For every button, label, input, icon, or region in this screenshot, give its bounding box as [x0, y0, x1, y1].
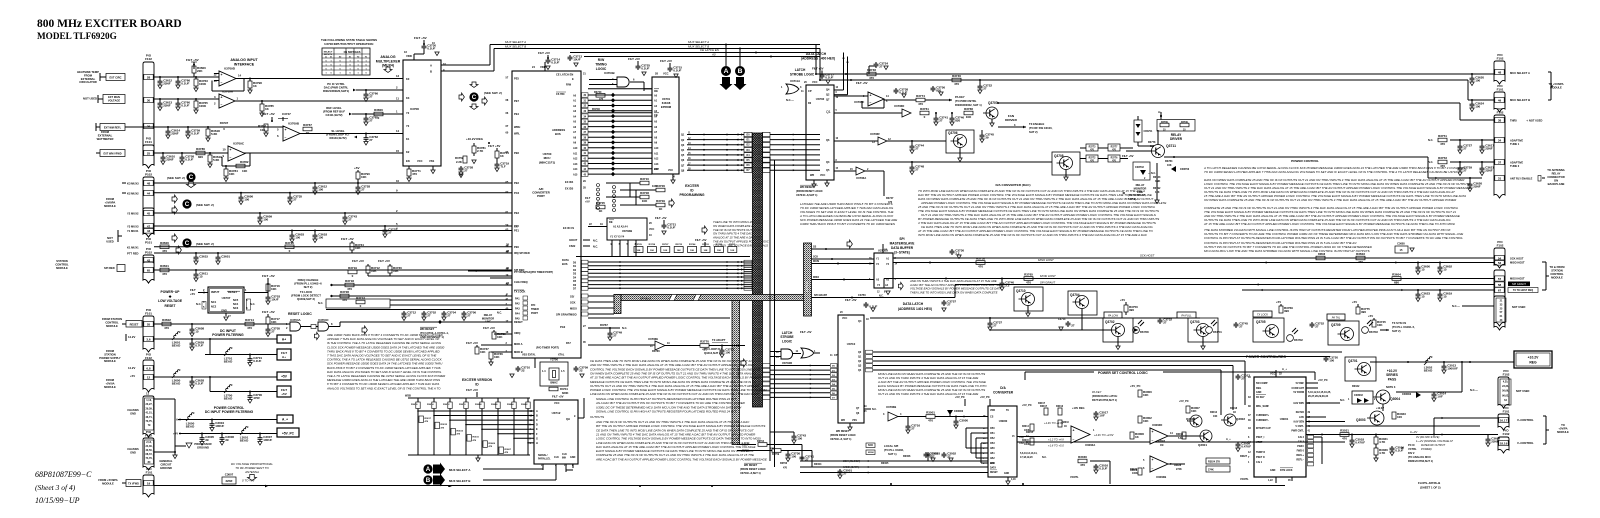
svg-text:470: 470	[164, 326, 169, 330]
svg-text:C: C	[189, 174, 194, 181]
svg-text:AB2: AB2	[990, 457, 995, 460]
SPI bus chevrons	[669, 295, 677, 301]
svg-text:F101: F101	[1503, 410, 1510, 414]
svg-text:DYN LOCK: DYN LOCK	[1280, 469, 1293, 472]
resistor R3709 1K	[656, 203, 665, 207]
svg-text:22NF: 22NF	[225, 479, 232, 483]
svg-text:VDD: VDD	[406, 54, 412, 58]
svg-text:0.1UF: 0.1UF	[185, 158, 193, 162]
svg-text:FILT +5V: FILT +5V	[262, 274, 276, 278]
svg-text:(TO PWR CNTRL: (TO PWR CNTRL	[955, 99, 977, 103]
transistor Q3706	[946, 130, 974, 153]
svg-text:470: 470	[783, 467, 788, 470]
svg-text:+5V_PC: +5V_PC	[1130, 384, 1141, 388]
capacitor C3756 820	[932, 86, 934, 88]
svg-text:R3765: R3765	[1024, 273, 1033, 277]
svg-text:+10V REG: +10V REG	[1072, 406, 1084, 410]
svg-text:100: 100	[725, 351, 730, 355]
svg-text:+5V/9PA: +5V/9PA	[105, 200, 116, 204]
relay wires to connector	[1164, 156, 1428, 158]
svg-text:15: 15	[1443, 268, 1447, 272]
svg-text:FILT +5V: FILT +5V	[628, 57, 640, 61]
svg-text:RESET: RESET	[990, 472, 998, 474]
wire to pin 38	[1459, 103, 1461, 120]
transistor Q3701	[1345, 357, 1376, 381]
svg-text:−: −	[221, 103, 223, 107]
svg-text:U3704C: U3704C	[318, 318, 330, 322]
capacitor C3612b 100	[314, 183, 316, 185]
svg-text:(SEE SHT. 2): (SEE SHT. 2)	[196, 203, 214, 207]
svg-text:(68HC11F1): (68HC11F1)	[539, 160, 555, 164]
svg-text:CB3: CB3	[990, 443, 995, 445]
capacitor C3746 820	[951, 113, 953, 116]
svg-text:EX ID5: EX ID5	[565, 187, 574, 191]
capacitor C3013b 27	[1237, 374, 1239, 376]
SPI bus left end stub	[614, 295, 621, 314]
svg-text:R3776: R3776	[1111, 158, 1118, 160]
capacitor C3720 100	[1325, 356, 1327, 358]
svg-text:F102: F102	[1497, 57, 1504, 61]
capacitor C3719 TLF	[496, 158, 498, 162]
svg-text:N.C.—: N.C.—	[786, 98, 794, 102]
capacitor C3744 27	[887, 140, 946, 142]
svg-text:73,75,: 73,75,	[146, 420, 153, 423]
SPI bus bar right turn down	[804, 243, 812, 316]
wire dac to r3030	[1090, 460, 1110, 462]
svg-text:470: 470	[869, 76, 874, 80]
svg-text:10K: 10K	[1143, 419, 1149, 423]
resistor R3761b 0	[920, 111, 929, 115]
svg-text:R3799: R3799	[1181, 122, 1188, 124]
svg-text:LATCH: LATCH	[795, 68, 806, 72]
svg-text:+5V: +5V	[281, 392, 286, 396]
capacitor C3614 22NF	[167, 127, 169, 129]
svg-text:100K: 100K	[1024, 444, 1030, 446]
relay driver ground	[1156, 163, 1158, 200]
svg-text:R3713: R3713	[356, 296, 365, 300]
svg-text:R3606: R3606	[491, 404, 498, 406]
svg-text:U3001: U3001	[1280, 417, 1289, 421]
svg-text:CLK: CLK	[990, 463, 995, 465]
latch U3702	[806, 85, 834, 180]
svg-text:4,20,: 4,20,	[1503, 381, 1509, 384]
svg-text:GND: GND	[1270, 469, 1276, 472]
marker A top	[721, 66, 731, 76]
svg-text:0.1UF: 0.1UF	[1395, 449, 1403, 453]
svg-text:0.47UF: 0.47UF	[1241, 445, 1251, 449]
vertical wires to markers	[725, 45, 727, 67]
svg-text:39: 39	[985, 136, 989, 140]
U3001 small pin boxes right lower	[1308, 435, 1314, 439]
upper-right data lines from bar to latch U3702	[763, 132, 771, 136]
svg-text:R3748: R3748	[867, 68, 876, 72]
svg-text:Q3702: Q3702	[1105, 320, 1115, 324]
svg-text:R3602: R3602	[162, 318, 171, 322]
svg-text:Q3412,SHT 2): Q3412,SHT 2)	[704, 351, 721, 355]
svg-text:MOSI HOST: MOSI HOST	[1040, 274, 1056, 278]
resistor R3765 470	[1024, 277, 1033, 281]
svg-text:XIRQ: XIRQ	[514, 331, 520, 335]
data bus D0-D7 MCU to bar	[588, 261, 752, 263]
svg-text:PA KEY: PA KEY	[1092, 390, 1102, 394]
svg-text:NC1: NC1	[211, 300, 217, 304]
svg-text:CB2: CB2	[990, 438, 995, 440]
resistor R3010 5.6K	[1182, 432, 1186, 439]
svg-text:POWER): POWER)	[1421, 447, 1432, 451]
marker C see sht2 mid	[469, 92, 478, 101]
resistor R3014 100K	[1030, 424, 1034, 431]
svg-text:+: +	[285, 128, 287, 132]
svg-text:SCK HOST: SCK HOST	[1140, 254, 1155, 258]
MOSI HOST long wire	[884, 278, 1494, 280]
svg-text:TIMER: TIMER	[531, 308, 539, 311]
svg-text:10K: 10K	[361, 175, 367, 179]
shift register U3712	[534, 400, 578, 464]
svg-text:23,34,: 23,34,	[1502, 385, 1509, 388]
step wires to DAC spi rows	[801, 445, 803, 462]
svg-text:CB0: CB0	[990, 428, 995, 430]
svg-text:5.6K: 5.6K	[211, 132, 218, 136]
svg-text:R3018: R3018	[1230, 407, 1238, 410]
svg-text:1UF: 1UF	[1099, 414, 1105, 418]
svg-text:D/A CONVERTER (DAC): D/A CONVERTER (DAC)	[995, 183, 1030, 187]
svg-text:100: 100	[791, 455, 796, 459]
svg-text:MISO: MISO	[813, 276, 819, 279]
transistor Q3709	[1328, 321, 1359, 345]
svg-text:DATA LATCH: DATA LATCH	[903, 302, 924, 306]
hollow arrow DAC para	[847, 240, 852, 248]
MISO HOST long wire	[893, 262, 1494, 264]
Q wire vertical drops	[1220, 370, 1222, 415]
svg-text:PE0: PE0	[514, 245, 519, 249]
svg-text:VDD: VDD	[990, 409, 995, 412]
svg-text:MUX SELECT B: MUX SELECT B	[1510, 98, 1530, 102]
wire Q1 row buffer U3706D	[834, 112, 902, 114]
svg-text:R3731: R3731	[560, 387, 568, 391]
caps on ad port lines C3712 C3702 C3704 C3706	[403, 311, 405, 313]
wires lower opamp cluster	[1168, 435, 1200, 437]
svg-text:27: 27	[939, 119, 943, 123]
svg-text:27: 27	[983, 87, 987, 91]
svg-text:R3758: R3758	[976, 257, 985, 261]
svg-text:R3772: R3772	[1089, 158, 1096, 160]
svg-text:12: 12	[147, 375, 151, 379]
svg-text:N.C.: N.C.	[622, 326, 627, 330]
svg-text:PE7: PE7	[514, 99, 519, 103]
svg-text:+: +	[870, 93, 872, 97]
capacitor C3003 27	[927, 452, 929, 461]
SPI GRANT long wire	[955, 284, 1494, 286]
resistor R3730 10K	[389, 264, 391, 266]
TX TO HOST REQ wire	[1242, 289, 1494, 291]
svg-text:R3726: R3726	[649, 244, 656, 246]
EPROM U3701	[652, 77, 679, 174]
svg-text:INH: INH	[562, 457, 566, 460]
capacitor C3745b 27	[1235, 322, 1237, 324]
svg-text:TX TO HOST REQ: TX TO HOST REQ	[1513, 289, 1533, 292]
svg-text:10K: 10K	[242, 169, 248, 173]
capacitor C3624 100	[1471, 100, 1473, 102]
buffer U3706F	[878, 137, 887, 145]
svg-text:10K: 10K	[271, 287, 277, 291]
svg-text:27: 27	[407, 314, 411, 318]
svg-text:4XOUT: 4XOUT	[569, 239, 578, 242]
svg-text:28: 28	[147, 75, 151, 79]
svg-text:FILT +5V: FILT +5V	[414, 36, 428, 40]
svg-text:37: 37	[1498, 160, 1502, 164]
transistor Q3003	[1370, 411, 1384, 425]
svg-text:WR: WR	[841, 419, 845, 422]
svg-text:NOT USED: NOT USED	[83, 97, 97, 101]
svg-text:15: 15	[1443, 295, 1447, 299]
svg-text:B: B	[738, 68, 743, 75]
svg-text:CHASSIS: CHASSIS	[127, 447, 139, 451]
svg-text:FROM STATION: FROM STATION	[102, 317, 122, 321]
resistor R3604 680	[1392, 277, 1401, 281]
SPI wires MCU to bus bar	[588, 295, 614, 297]
CE latch EN wire	[570, 52, 820, 54]
svg-text:R3722: R3722	[716, 244, 723, 246]
svg-text:F102: F102	[145, 356, 152, 360]
svg-text:−: −	[230, 156, 232, 160]
capacitor C3628 0.1UF	[191, 377, 193, 379]
svg-text:470: 470	[1358, 260, 1363, 264]
svg-text:470: 470	[162, 272, 167, 276]
svg-text:2.2K: 2.2K	[456, 160, 462, 164]
svg-text:A: A	[430, 64, 432, 68]
transistor Q3704	[1068, 291, 1097, 315]
svg-text:800 MHz EXCITER BOARD: 800 MHz EXCITER BOARD	[37, 18, 182, 30]
svg-text:R3773: R3773	[1089, 147, 1096, 149]
svg-text:U3709C: U3709C	[233, 142, 245, 146]
svg-text:EXTERNAL: EXTERNAL	[98, 133, 113, 137]
svg-text:10K: 10K	[703, 250, 707, 252]
svg-text:SPI GRANT: SPI GRANT	[1040, 281, 1055, 285]
capacitor C3621 22NF	[1481, 162, 1483, 166]
svg-text:55: 55	[147, 322, 151, 326]
svg-text:U3708: U3708	[410, 107, 419, 111]
svg-text:BEAD: BEAD	[172, 344, 181, 348]
mux select B long wire right	[820, 79, 1468, 81]
inductor L3601 BEAD	[172, 332, 180, 340]
svg-text:FILT +5V: FILT +5V	[378, 259, 390, 263]
svg-text:PA FULL: PA FULL	[1181, 314, 1192, 318]
svg-text:TX LOCK: TX LOCK	[1257, 313, 1268, 317]
hollow arrows at reset paragraph	[362, 326, 367, 334]
svg-text:1.5: 1.5	[561, 370, 565, 373]
svg-text:MOSI: MOSI	[570, 306, 577, 310]
svg-text:A_+: A_+	[1226, 438, 1231, 441]
wire to DAC CS	[935, 416, 988, 418]
svg-text:FROM: FROM	[106, 197, 115, 201]
svg-text:F102: F102	[1497, 111, 1504, 115]
capacitor C3617 22NF	[1481, 140, 1483, 144]
svg-text:U3002D: U3002D	[1152, 423, 1162, 427]
U3712 clock wires	[542, 464, 544, 470]
svg-text:REFL−: REFL−	[1296, 459, 1304, 462]
svg-text:R3615: R3615	[441, 424, 448, 426]
svg-text:CIRCUIT: CIRCUIT	[161, 462, 172, 466]
svg-text:470: 470	[918, 102, 923, 106]
resistor R3601 470	[160, 268, 169, 272]
svg-text:100: 100	[1329, 359, 1334, 363]
svg-text:SS/: SS/	[570, 294, 574, 298]
svg-text:TEMP O: TEMP O	[1256, 451, 1265, 454]
svg-text:EXTERNAL: EXTERNAL	[81, 77, 96, 81]
svg-text:Q3708: Q3708	[1054, 154, 1064, 158]
svg-text:BMHZ: BMHZ	[550, 382, 558, 385]
svg-text:22K: 22K	[197, 69, 203, 73]
svg-text:SCK: SCK	[570, 300, 576, 304]
svg-text:WD RESET: WD RESET	[420, 327, 435, 331]
svg-text:+5V: +5V	[190, 292, 195, 296]
svg-text:MUX SELECT A: MUX SELECT A	[688, 40, 709, 44]
svg-text:POWER SET CONTROL LOGIC: POWER SET CONTROL LOGIC	[1098, 371, 1148, 375]
svg-text:Q3701: Q3701	[1348, 359, 1358, 363]
svg-text:−: −	[221, 81, 223, 85]
svg-text:NC4: NC4	[233, 302, 239, 306]
transistor Q3000	[1190, 415, 1202, 427]
U3705A OE wire from above	[882, 244, 884, 253]
resistor R3782 10K feedback	[221, 157, 223, 166]
svg-text:TO DC U3000 SEVEN LATCHED APPL: TO DC U3000 SEVEN LATCHED APPLIED 7 THIS…	[1204, 170, 1457, 174]
mux select A wire routing	[441, 64, 490, 66]
svg-text:OE: OE	[884, 249, 888, 251]
svg-text:FILT +5V: FILT +5V	[856, 81, 868, 85]
svg-text:P102: P102	[145, 251, 152, 255]
svg-text:MUX SELECT A: MUX SELECT A	[449, 468, 471, 472]
op-amp U3002B lower	[1150, 456, 1168, 472]
svg-text:44: 44	[147, 191, 151, 195]
svg-text:FILT +5V: FILT +5V	[466, 341, 478, 345]
resistor R3020 4.7K	[1375, 444, 1377, 448]
capacitor C3766 27	[365, 90, 367, 92]
svg-text:Y3700: Y3700	[550, 358, 559, 362]
svg-text:R3761: R3761	[920, 107, 929, 111]
svg-text:F102: F102	[145, 57, 152, 61]
svg-text:R3001: R3001	[926, 411, 935, 415]
state table	[322, 48, 370, 75]
svg-text:9.6V SEN: 9.6V SEN	[1294, 421, 1305, 424]
svg-text:R3708: R3708	[640, 191, 649, 195]
svg-text:Q3709: Q3709	[1331, 323, 1341, 327]
svg-text:RELAY: RELAY	[1136, 183, 1145, 187]
svg-text:C3713: C3713	[1058, 318, 1066, 321]
svg-text:ANALOG VOLTAGES TO SET AND IC: ANALOG VOLTAGES TO SET AND IC EXACT LEVE…	[326, 386, 441, 390]
svg-text:27: 27	[1315, 325, 1319, 329]
capacitor C3748 27	[911, 162, 913, 165]
svg-text:TO ANTENNA: TO ANTENNA	[1547, 168, 1565, 172]
svg-text:VCC: VCC	[812, 80, 818, 84]
transistor Q3004	[1376, 390, 1390, 404]
svg-text:14.2V: 14.2V	[128, 366, 135, 370]
svg-text:R3013: R3013	[1056, 405, 1064, 408]
svg-text:U3002A: U3002A	[1085, 443, 1095, 447]
transistor Q3708	[1052, 152, 1080, 175]
svg-text:FILT: FILT	[585, 196, 591, 200]
svg-text:10: 10	[396, 179, 400, 183]
svg-text:CS82: CS82	[569, 245, 576, 248]
svg-text:A12: A12	[654, 158, 659, 161]
svg-text:R3602: R3602	[521, 404, 528, 406]
svg-text:R3728: R3728	[340, 290, 349, 294]
svg-text:GND: GND	[130, 451, 136, 455]
svg-text:0.1UF: 0.1UF	[825, 76, 833, 80]
svg-text:PG0: PG0	[560, 325, 566, 329]
svg-text:VCNTL: VCNTL	[1240, 477, 1249, 481]
svg-text:11: 11	[146, 392, 149, 396]
wire Q3 row long	[834, 161, 1052, 163]
svg-text:10UF: 10UF	[271, 298, 279, 302]
svg-text:MOD A: MOD A	[514, 342, 523, 346]
svg-text:A: A	[426, 466, 431, 473]
svg-text:27: 27	[993, 324, 997, 328]
analog multiplexer U3708	[403, 60, 441, 166]
svg-text:MODULE: MODULE	[56, 266, 68, 270]
svg-text:Y2: Y2	[406, 111, 410, 115]
svg-text:CONTROL: CONTROL	[105, 320, 119, 324]
resistor R3763 100K	[195, 77, 197, 79]
svg-text:U3002B: U3002B	[1156, 475, 1166, 479]
capacitor C3713 10UF	[569, 55, 571, 57]
svg-text:WD RESET: WD RESET	[744, 464, 758, 467]
svg-text:NOTE 3: NOTE 3	[1386, 385, 1396, 389]
svg-text:R3024 27K: R3024 27K	[1208, 461, 1220, 464]
U3703B output wires	[611, 240, 613, 257]
svg-text:A13: A13	[573, 163, 578, 166]
svg-text:◆: ◆	[168, 295, 172, 299]
svg-text:10K: 10K	[966, 115, 972, 119]
capacitor C3005 39	[201, 434, 203, 436]
svg-text:470: 470	[978, 265, 983, 269]
reset supervisor U3707	[208, 287, 244, 313]
svg-text:Q3706: Q3706	[948, 131, 958, 135]
capacitor C3737 27	[989, 318, 991, 321]
svg-text:FROM +5V/9PA: FROM +5V/9PA	[98, 478, 117, 482]
resistor R3714 470	[245, 322, 254, 326]
svg-text:TO: TO	[1561, 423, 1565, 427]
svg-text:10K: 10K	[1191, 409, 1197, 413]
svg-text:R3006: R3006	[903, 455, 911, 458]
svg-text:PC2: PC2	[514, 191, 520, 195]
svg-text:CAI 3: CAI 3	[1298, 441, 1305, 444]
wire routing bus corners upper right	[815, 45, 817, 75]
resistor R3017 3.9K	[1044, 408, 1048, 415]
svg-text:Q3004: Q3004	[1390, 397, 1400, 401]
LED D53701	[1206, 327, 1213, 334]
svg-text:AB0: AB0	[990, 447, 995, 450]
svg-text:FILT +5V: FILT +5V	[488, 144, 500, 148]
svg-text:LOW VOLTAGE: LOW VOLTAGE	[158, 299, 183, 303]
svg-text:TX VFWD: TX VFWD	[128, 483, 139, 486]
svg-text:R3611: R3611	[473, 437, 480, 439]
capacitor C3600 15	[1417, 263, 1419, 266]
svg-text:R3774/C3756,SHT 1): R3774/C3756,SHT 1)	[1092, 398, 1117, 402]
svg-text:R3017: R3017	[1040, 405, 1048, 408]
wires relay driver	[1157, 130, 1159, 145]
svg-text:GND: GND	[1256, 391, 1262, 394]
svg-text:VSS: VSS	[429, 159, 434, 163]
svg-text:10K: 10K	[494, 355, 500, 359]
svg-text:U3704A: U3704A	[290, 318, 302, 322]
svg-text:470: 470	[1026, 281, 1031, 285]
svg-text:CE LATCH EN: CE LATCH EN	[700, 48, 720, 52]
svg-text:⊣ NOT USED: ⊣ NOT USED	[1526, 119, 1543, 123]
svg-text:USED: USED	[106, 240, 114, 244]
svg-text:10K: 10K	[663, 250, 667, 252]
svg-text:CE LATCH EN: CE LATCH EN	[556, 73, 573, 77]
svg-text:SPI GRANT: SPI GRANT	[556, 313, 571, 317]
